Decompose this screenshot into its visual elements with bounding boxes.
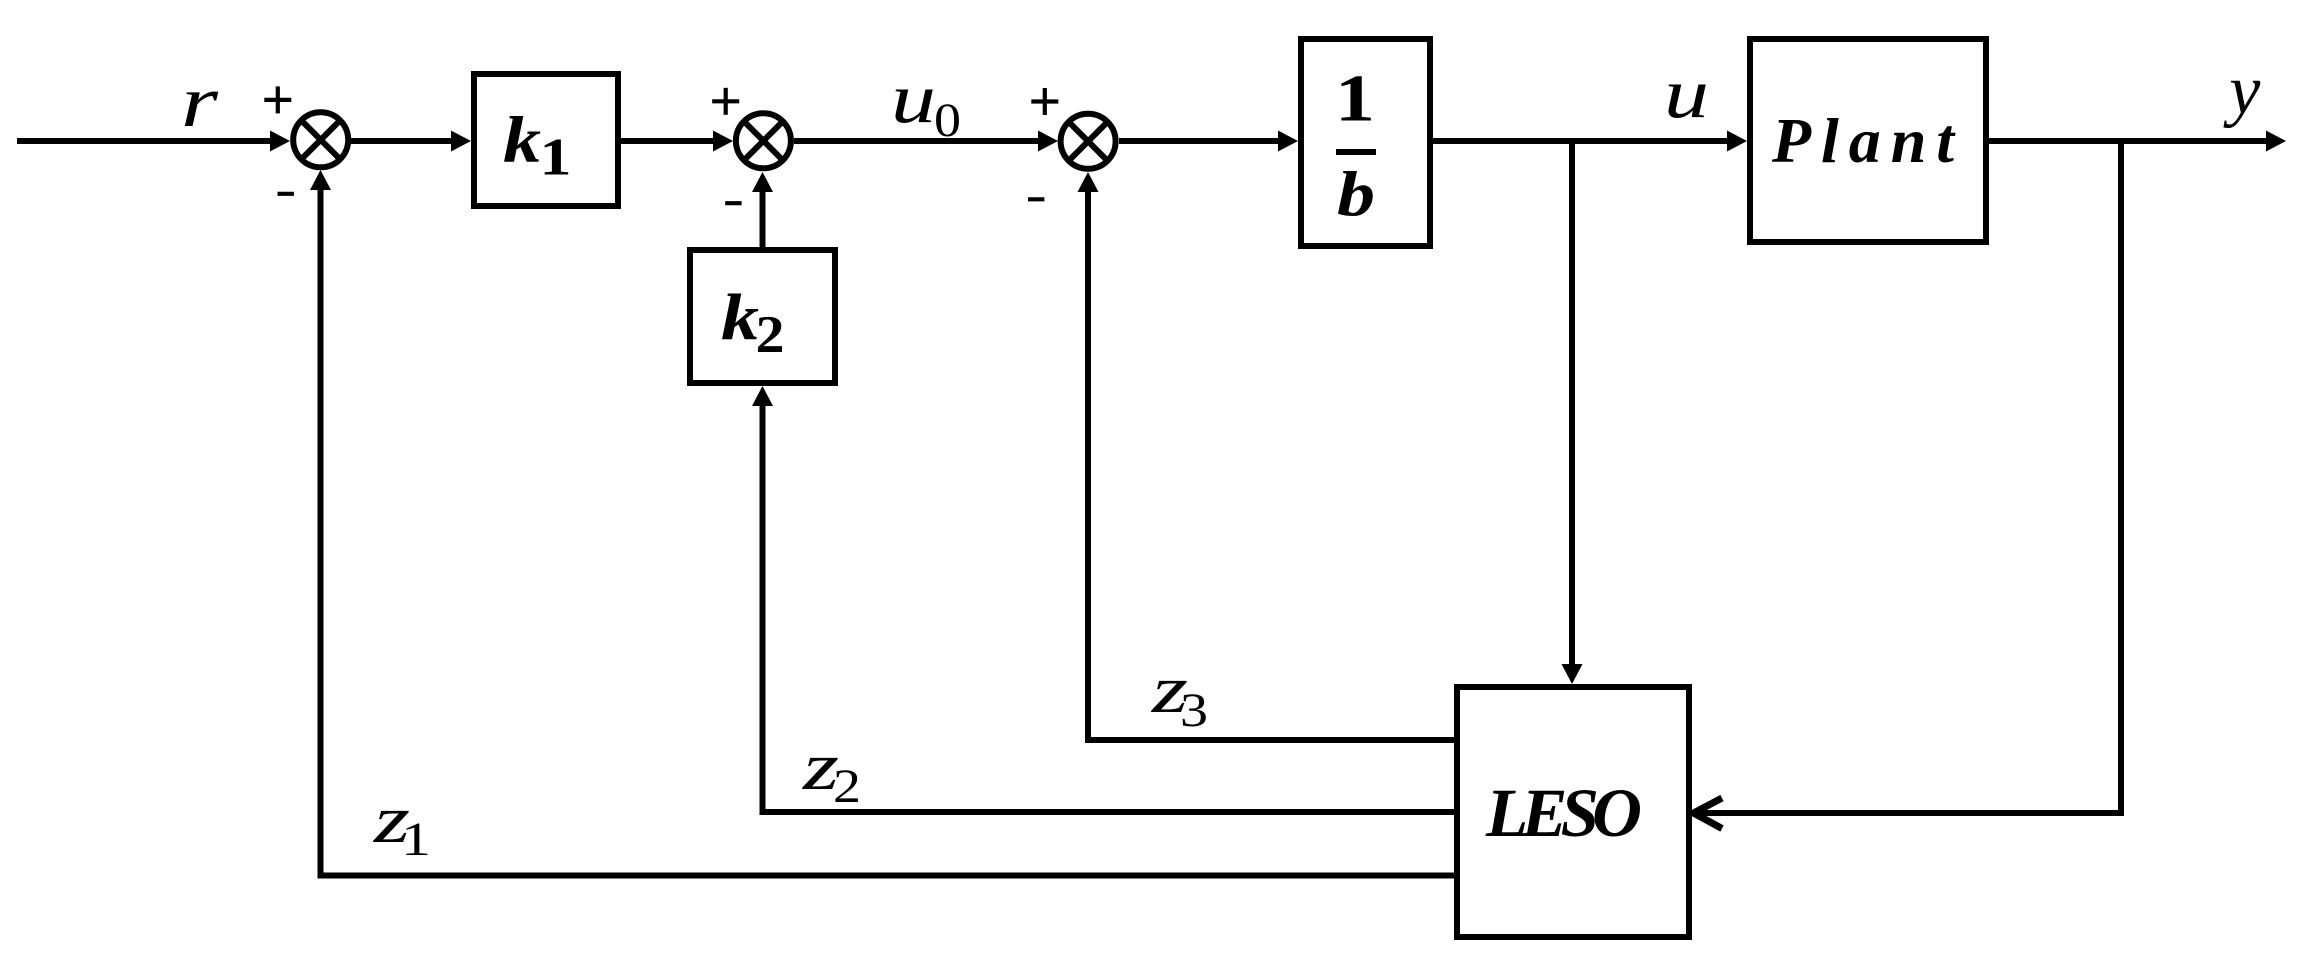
svg-text:u: u xyxy=(1664,55,1709,133)
svg-text:1: 1 xyxy=(401,813,431,866)
svg-text:k: k xyxy=(721,281,759,354)
svg-text:y: y xyxy=(2223,52,2261,129)
svg-text:k: k xyxy=(503,104,541,177)
svg-text:1: 1 xyxy=(540,129,572,187)
svg-text:2: 2 xyxy=(756,306,785,364)
svg-text:3: 3 xyxy=(1180,684,1208,737)
svg-text:1: 1 xyxy=(1335,61,1375,135)
svg-text:u: u xyxy=(891,60,936,138)
svg-text:LESO: LESO xyxy=(1485,775,1642,851)
svg-text:r: r xyxy=(181,61,219,142)
svg-text:0: 0 xyxy=(934,94,961,147)
svg-text:b: b xyxy=(1337,158,1375,229)
svg-text:2: 2 xyxy=(833,760,861,813)
